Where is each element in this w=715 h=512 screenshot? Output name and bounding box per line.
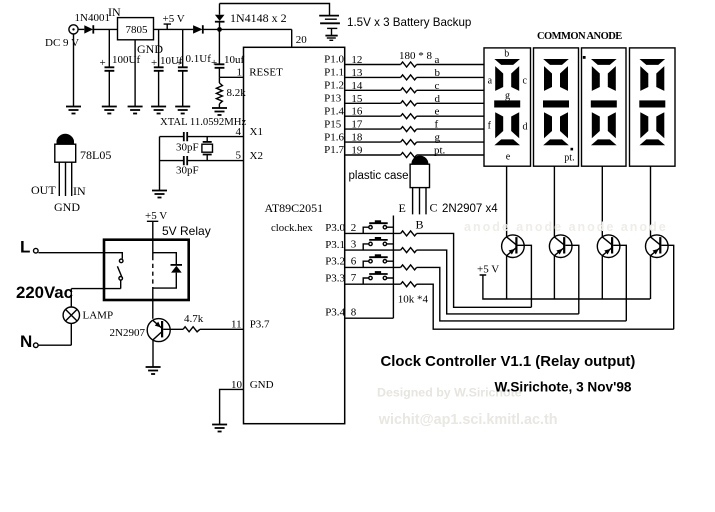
wire D1 to U1: [93, 28, 117, 30]
svg-text:W.Sirichote, 3 Nov'98: W.Sirichote, 3 Nov'98: [495, 380, 632, 395]
svg-text:f: f: [435, 119, 439, 131]
svg-text:Clock Controller V1.1 (Relay o: Clock Controller V1.1 (Relay output): [381, 354, 636, 370]
svg-text:+5 V: +5 V: [145, 210, 167, 222]
capacitor C1 100Uf: [100, 29, 141, 106]
wire X2 row: [160, 160, 244, 162]
display DS4 digit: [630, 48, 676, 166]
svg-text:P3.4: P3.4: [325, 307, 345, 319]
svg-text:8: 8: [351, 307, 357, 319]
svg-text:clock.hex: clock.hex: [271, 222, 313, 234]
svg-text:220Vac: 220Vac: [16, 283, 73, 302]
svg-text:RESET: RESET: [249, 67, 283, 79]
button S3 row pin6 P3.2: [325, 254, 626, 321]
svg-text:e: e: [506, 152, 511, 163]
transistor Q4: [646, 166, 674, 329]
diode D4 across coil: [153, 253, 182, 288]
display DS3 digit: [582, 48, 627, 166]
svg-text:+: +: [100, 57, 106, 69]
svg-text:+: +: [211, 57, 217, 69]
ground under C3: [175, 107, 190, 114]
svg-text:a: a: [435, 54, 440, 66]
ground under R1: [212, 108, 227, 115]
svg-text:P3.1: P3.1: [325, 239, 345, 251]
svg-text:X1: X1: [250, 126, 263, 138]
svg-text:AT89C2051: AT89C2051: [265, 201, 324, 215]
svg-text:anode anode anode anode: anode anode anode anode: [464, 220, 668, 234]
svg-text:g: g: [435, 132, 441, 144]
svg-text:78L05: 78L05: [80, 148, 111, 162]
svg-text:11: 11: [231, 319, 242, 331]
svg-text:100Uf: 100Uf: [112, 54, 140, 66]
wire P1.0 pin12 row + resistor: [324, 54, 484, 67]
svg-text:IN: IN: [108, 5, 121, 19]
svg-text:+: +: [176, 57, 182, 69]
svg-text:C: C: [430, 201, 438, 215]
wire J1 to D1: [78, 28, 84, 30]
svg-text:P1.4: P1.4: [324, 105, 344, 117]
svg-text:+5 V: +5 V: [163, 13, 185, 25]
svg-text:COMMON ANODE: COMMON ANODE: [537, 31, 622, 42]
svg-text:3: 3: [351, 239, 357, 251]
svg-text:c: c: [435, 80, 440, 92]
svg-text:P1.1: P1.1: [324, 67, 344, 79]
svg-text:5V Relay: 5V Relay: [162, 224, 211, 238]
wire reset node to pin1: [219, 76, 243, 78]
svg-text:30pF: 30pF: [176, 142, 199, 154]
svg-text:LAMP: LAMP: [83, 310, 114, 322]
svg-text:g: g: [505, 91, 510, 102]
wire P1.1 pin13 row + resistor: [324, 67, 484, 80]
regulator U3 78L05: [31, 134, 111, 214]
svg-text:wichit@ap1.sci.kmitl.ac.th: wichit@ap1.sci.kmitl.ac.th: [378, 412, 558, 428]
svg-text:P3.2: P3.2: [325, 256, 345, 268]
svg-text:c: c: [523, 76, 528, 87]
ground under BT1: [325, 36, 337, 41]
svg-text:7805: 7805: [126, 24, 149, 36]
power +5V rail: [477, 264, 650, 300]
svg-text:P1.7: P1.7: [324, 144, 344, 156]
ground under C2: [151, 107, 166, 114]
svg-text:N: N: [20, 332, 32, 351]
wire X1 row: [160, 136, 244, 138]
relay contact: [39, 253, 123, 307]
display DS1 digit: [484, 48, 531, 166]
wire P1.6 pin18 row + resistor: [324, 131, 484, 144]
svg-text:b: b: [435, 67, 441, 79]
wire VCC to pin20: [291, 29, 293, 47]
svg-text:P3.7: P3.7: [250, 319, 270, 331]
svg-text:pt.: pt.: [434, 145, 446, 157]
wire top rail to battery: [220, 4, 330, 16]
svg-text:P13: P13: [324, 93, 342, 105]
wire button bus P3.4: [392, 216, 394, 319]
transistor Q5 2N2907: [110, 319, 184, 367]
wire P1.4 pin16 row + resistor: [324, 105, 484, 118]
wire D2 to VCC node: [203, 28, 292, 30]
terminal L: [20, 238, 38, 257]
svg-text:2N2907: 2N2907: [110, 327, 146, 339]
svg-text:XTAL 11.0592MHz: XTAL 11.0592MHz: [160, 116, 246, 128]
diode D3 1N4148 battery: [215, 4, 287, 28]
transistor Q3: [597, 166, 626, 321]
svg-text:OUT: OUT: [31, 183, 56, 197]
svg-text:P1.2: P1.2: [324, 80, 344, 92]
ground under Q5: [146, 367, 161, 374]
svg-text:1.5V x 3 Battery Backup: 1.5V x 3 Battery Backup: [347, 16, 471, 29]
transistor Q2: [549, 166, 578, 314]
svg-text:IN: IN: [73, 184, 86, 198]
svg-text:a: a: [488, 76, 493, 87]
svg-text:E: E: [399, 201, 406, 215]
svg-text:P1.6: P1.6: [324, 131, 344, 143]
svg-text:P1.0: P1.0: [324, 54, 344, 66]
battery BT1: [319, 16, 471, 35]
svg-text:+5 V: +5 V: [477, 264, 499, 276]
diode D1 1N4001: [75, 12, 110, 34]
svg-text:5: 5: [236, 150, 242, 162]
svg-text:4.7k: 4.7k: [184, 313, 204, 325]
svg-text:GND: GND: [54, 200, 80, 214]
svg-text:4: 4: [236, 126, 242, 138]
svg-text:1N4001: 1N4001: [75, 12, 110, 24]
ground under J1: [66, 107, 81, 114]
svg-text:plastic case: plastic case: [349, 170, 409, 182]
svg-text:30pF: 30pF: [176, 165, 199, 177]
crystal Y1: [202, 137, 213, 161]
svg-text:180 * 8: 180 * 8: [399, 50, 433, 62]
svg-text:pt.: pt.: [564, 152, 574, 163]
node VCC junction: [217, 27, 222, 32]
svg-text:P3.0: P3.0: [325, 222, 345, 234]
relay RLY1 box: [104, 240, 189, 300]
ground pin10: [212, 425, 227, 432]
svg-text:1N4148 x 2: 1N4148 x 2: [230, 11, 287, 25]
wire P1.7 pin19 row + resistor: [324, 144, 484, 157]
capacitor C6 30pF: [176, 156, 199, 177]
button S2 row pin3 P3.1: [325, 237, 579, 314]
wire P1.5 pin17 row + resistor: [324, 118, 484, 131]
svg-text:X2: X2: [250, 150, 263, 162]
svg-text:f: f: [488, 121, 492, 132]
button S1 row pin2 P3.0: [325, 220, 531, 307]
display DS2 digit: [534, 48, 579, 166]
svg-text:6: 6: [351, 255, 357, 267]
transistor case drawing TO-92: [349, 156, 499, 232]
wire U1 out to +5V and D2: [154, 28, 194, 30]
wire pin8 row: [345, 317, 394, 319]
wire U1 GND leg: [134, 40, 136, 106]
resistor R1 8.2k: [216, 77, 246, 107]
wire xtal left vertical to ground: [159, 137, 161, 190]
svg-text:GND: GND: [137, 42, 163, 56]
svg-text:d: d: [523, 122, 528, 133]
svg-text:2: 2: [351, 222, 357, 234]
ground under U1: [128, 107, 143, 114]
svg-text:b: b: [504, 48, 509, 59]
resistor R2 4.7k: [183, 313, 243, 332]
svg-text:P3.3: P3.3: [325, 273, 345, 285]
svg-text:e: e: [435, 106, 440, 118]
diode D2 1N4148: [193, 25, 203, 33]
svg-text:20: 20: [296, 34, 308, 46]
svg-text:1: 1: [237, 67, 243, 79]
ground xtal: [152, 191, 167, 198]
svg-text:2N2907 x4: 2N2907 x4: [442, 203, 498, 215]
svg-text:d: d: [435, 93, 441, 105]
relay coil (dashed): [152, 240, 154, 319]
svg-text:B: B: [416, 218, 424, 232]
power +5V top: [163, 13, 185, 29]
svg-text:7: 7: [351, 272, 357, 284]
wire P1.2 pin14 row + resistor: [324, 80, 484, 93]
svg-text:10k *4: 10k *4: [398, 294, 429, 306]
svg-text:GND: GND: [250, 379, 274, 391]
svg-text:P15: P15: [324, 118, 342, 130]
wire J1 down to ground: [73, 34, 75, 106]
wire P1.3 pin15 row + resistor: [324, 93, 484, 106]
capacitor C5 30pF: [176, 132, 199, 154]
svg-text:10uf: 10uf: [224, 54, 245, 66]
svg-text:L: L: [20, 238, 30, 257]
regulator U1 7805: [108, 5, 163, 56]
connector J1 DC input: [45, 25, 79, 49]
power +5V relay: [145, 210, 167, 240]
wire pin10 to ground: [220, 379, 244, 424]
button S4 row pin7 P3.3: [325, 271, 674, 329]
svg-text:+: +: [151, 57, 157, 69]
ground under C1: [102, 107, 117, 114]
capacitor C4 10uf reset: [211, 29, 245, 77]
capacitor C2 10Uf: [151, 29, 183, 106]
lamp LA1: [63, 307, 113, 323]
svg-text:0.1Uf: 0.1Uf: [186, 53, 212, 65]
capacitor C3 0.1Uf: [176, 29, 211, 106]
terminal N: [20, 323, 71, 351]
transistor Q1: [502, 166, 532, 307]
